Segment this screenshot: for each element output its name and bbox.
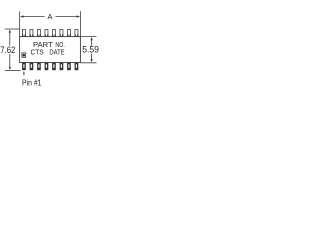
pin 1 (bottom row 1) xyxy=(22,63,26,71)
svg-text:7.62: 7.62 xyxy=(0,45,15,55)
dimension A extension line right xyxy=(79,11,81,36)
package body U1 xyxy=(20,37,81,63)
pin 4 xyxy=(45,63,49,71)
dimension 7.62 top extension line xyxy=(5,28,20,30)
pin 6 xyxy=(60,63,64,71)
pin 13 xyxy=(45,29,48,36)
dimension 7.62 line upper segment xyxy=(9,32,11,46)
pin 12 xyxy=(52,29,55,36)
pin 11 xyxy=(60,29,63,36)
dimension 7.62 down arrowhead xyxy=(9,67,11,70)
dimension 5.59 bottom extension line xyxy=(80,62,96,64)
dimension A extension line left xyxy=(19,11,21,36)
dimension A line right segment xyxy=(56,16,78,18)
pin 10 xyxy=(67,29,70,36)
pin 1 leader arrowhead xyxy=(23,71,25,73)
pin 7 xyxy=(67,63,71,71)
svg-text:Pin #1: Pin #1 xyxy=(22,78,42,88)
svg-text:5.59: 5.59 xyxy=(82,45,99,55)
dimension 7.62 bottom extension line xyxy=(5,70,21,72)
pin 5 xyxy=(52,63,56,71)
pin 9 xyxy=(75,29,78,36)
svg-text:A: A xyxy=(48,12,53,21)
dimension 5.59 down arrowhead xyxy=(90,59,92,62)
dimension 7.62 line lower segment xyxy=(9,54,11,68)
pin 3 xyxy=(37,63,41,71)
dimension 5.59 up arrowhead xyxy=(90,37,92,40)
dimension A left arrowhead xyxy=(20,15,24,17)
top pin feet shading xyxy=(22,35,78,37)
pin 2 xyxy=(30,63,34,71)
pin 1 index mark xyxy=(22,53,26,57)
pin 8 xyxy=(75,63,79,71)
dimension 5.59 top extension line xyxy=(80,36,96,38)
dimension 7.62 up arrowhead xyxy=(9,29,11,32)
pin 1 leader line xyxy=(23,73,25,75)
svg-text:PARTNO.: PARTNO. xyxy=(33,42,65,49)
pin 15 xyxy=(30,29,33,36)
pin 16 (top row 1) xyxy=(22,29,25,36)
dimension A right arrowhead xyxy=(77,15,81,17)
dimension 5.59 line lower segment xyxy=(91,54,93,60)
pin 14 xyxy=(37,29,40,36)
dimension A line left segment xyxy=(23,16,45,18)
dimension 5.59 line upper segment xyxy=(91,40,93,46)
